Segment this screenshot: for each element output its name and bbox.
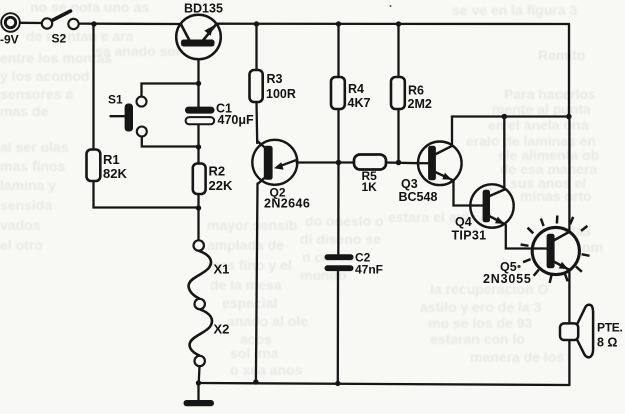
- resistor R4 4K7: [331, 77, 345, 109]
- svg-text:Remito: Remito: [538, 47, 585, 63]
- wire: top rail BD135 to right corner: [216, 23, 569, 26]
- resistor R5 1K: [354, 155, 386, 170]
- svg-text:en el anela ona: en el anela ona: [488, 117, 589, 133]
- svg-text:Q3: Q3: [401, 177, 418, 191]
- wire: emitter node down to C2: [337, 163, 340, 255]
- wire: X2 bottom to rail: [198, 366, 201, 383]
- svg-text:de montau e ara: de montau e ara: [26, 28, 134, 44]
- svg-text:22K: 22K: [209, 178, 233, 193]
- wire: Q5 emitter to speaker: [568, 270, 570, 324]
- transistor Q4 TIP31: [470, 184, 513, 227]
- svg-text:PTE.: PTE.: [597, 321, 622, 335]
- svg-text:do oneslo o: do oneslo o: [305, 213, 384, 229]
- node: R5 / R6 / Q3 base junction: [396, 160, 402, 166]
- svg-text:om: om: [582, 239, 603, 255]
- wire: R2 bottom to X1: [197, 194, 199, 240]
- node: rail/R6 junction: [396, 21, 401, 26]
- wire: R3 to Q2 top: [255, 102, 258, 143]
- svg-text:2N2646: 2N2646: [264, 196, 310, 210]
- wire: Q2 bottom to ground rail: [256, 184, 258, 383]
- svg-text:100R: 100R: [266, 87, 296, 101]
- wire: Q3 emitter to Q4 base: [454, 181, 471, 206]
- svg-text:mas finos: mas finos: [0, 158, 66, 174]
- svg-text:4K7: 4K7: [348, 96, 371, 110]
- capacitor C1 470uF: [185, 107, 215, 125]
- node: bottom rail Q2 junction: [253, 379, 258, 384]
- svg-text:mayor sensib: mayor sensib: [207, 217, 297, 233]
- wire: R5 to Q3 base: [386, 161, 418, 164]
- svg-text:anado al ole: anado al ole: [227, 313, 308, 329]
- svg-text:2N3055: 2N3055: [483, 272, 532, 286]
- wire: top rail S2 to BD135: [79, 22, 181, 25]
- transistor Q5 2N3055 with heatsink burst: [521, 216, 590, 283]
- svg-text:1K: 1K: [362, 180, 378, 194]
- svg-text:manera de los: manera de los: [470, 349, 564, 365]
- switch S2: [42, 11, 79, 29]
- transistor Q1 BD135: [176, 15, 221, 60]
- svg-text:di diseno se: di diseno se: [300, 231, 381, 247]
- node: Q4 collector rail junction: [502, 114, 508, 120]
- speck artifact above R6: [390, 5, 392, 7]
- svg-text:de la mesa: de la mesa: [210, 277, 282, 293]
- wire: right side drop from top rail: [568, 24, 570, 117]
- svg-text:al ser olas: al ser olas: [0, 139, 69, 155]
- node: Q2 emitter / R4 / C2 junction: [336, 160, 342, 166]
- wire: Q4 emitter to Q5 base: [506, 225, 533, 249]
- wire: R6 to base node: [397, 109, 399, 163]
- svg-text:sa anado sol: sa anado sol: [95, 43, 180, 59]
- svg-text:Q4: Q4: [455, 215, 472, 229]
- pushbutton S1: [125, 97, 147, 137]
- node: bottom rail X2 junction: [196, 380, 201, 385]
- wire: R1 bottom lead: [94, 181, 199, 208]
- svg-text:R1: R1: [103, 152, 120, 167]
- svg-text:mas de: mas de: [0, 103, 48, 119]
- svg-text:82K: 82K: [103, 166, 127, 181]
- resistor R6 2M2: [391, 77, 405, 109]
- svg-text:BD135: BD135: [184, 2, 223, 16]
- svg-text:lamina y: lamina y: [0, 177, 56, 193]
- svg-text:2M2: 2M2: [408, 97, 432, 111]
- node: R1/R2/X1 junction: [196, 205, 201, 210]
- svg-text:X1: X1: [214, 262, 230, 277]
- wire: C2 to ground rail: [337, 271, 340, 383]
- wire: mid collector rail: [452, 115, 569, 117]
- svg-text:-9V: -9V: [0, 32, 19, 46]
- svg-text:X2: X2: [214, 322, 230, 337]
- wire: top rail battery to S2: [20, 22, 42, 25]
- wire: ground stub: [197, 383, 199, 400]
- node: rail/R4 junction: [336, 21, 341, 26]
- svg-text:mo se los de 93: mo se los de 93: [428, 315, 532, 331]
- svg-text:R3: R3: [267, 72, 283, 86]
- svg-text:estaran con lo: estaran con lo: [430, 331, 525, 347]
- speck artifact near Q5: [517, 265, 520, 268]
- svg-text:el otro: el otro: [0, 237, 43, 253]
- wire: S1 top link: [142, 84, 199, 97]
- speaker PTE 8 ohm: [560, 305, 593, 358]
- svg-text:Para hacerlos: Para hacerlos: [504, 86, 596, 102]
- resistor R1 82K: [87, 150, 101, 182]
- node: Q5 collector rail junction: [566, 114, 572, 120]
- svg-text:se ve en la figura 3: se ve en la figura 3: [452, 2, 577, 18]
- svg-text:S1: S1: [108, 93, 123, 107]
- svg-text:R6: R6: [408, 84, 424, 98]
- wire: rail to R6: [397, 24, 399, 77]
- svg-text:sol ima: sol ima: [230, 345, 278, 361]
- wire: Q4 collector riser: [503, 117, 505, 190]
- svg-text:R4: R4: [348, 82, 364, 96]
- wire: Q2 emitter to R5: [297, 161, 354, 163]
- transistor Q2 2N2646: [252, 140, 297, 185]
- svg-text:S2: S2: [52, 31, 67, 45]
- node A: rail junction: [91, 21, 96, 26]
- node: C1 bottom / S1 junction: [196, 144, 201, 149]
- svg-text:sensores a: sensores a: [0, 86, 73, 102]
- svg-text:470μF: 470μF: [218, 113, 255, 127]
- wire: S1 actuator stub: [111, 115, 125, 117]
- svg-text:especial: especial: [222, 295, 277, 311]
- wire: bottom ground rail: [199, 383, 570, 385]
- wire: C1 bottom to R2: [197, 125, 199, 164]
- ground: [184, 400, 215, 406]
- svg-text:sensida: sensida: [0, 197, 52, 213]
- wire: rail to R3: [255, 24, 257, 70]
- svg-text:minas orto: minas orto: [520, 188, 592, 204]
- wire: S1 bottom link: [142, 137, 199, 147]
- wire: rail to R4: [337, 24, 339, 77]
- svg-text:47nF: 47nF: [355, 263, 383, 277]
- svg-text:y los acomod: y los acomod: [0, 68, 89, 84]
- transducer X1: [189, 240, 211, 309]
- battery terminal -9V: [1, 13, 20, 32]
- svg-text:8 Ω: 8 Ω: [597, 336, 617, 350]
- wire: R4 to emitter node: [337, 109, 339, 163]
- resistor R3 100R: [250, 70, 263, 102]
- svg-text:astilo y ero de la 3: astilo y ero de la 3: [420, 299, 542, 315]
- capacitor C2 47nF: [325, 254, 354, 271]
- node: bottom rail C2 junction: [335, 381, 340, 386]
- resistor R2 22K: [193, 164, 206, 195]
- transistor Q3 BC548: [418, 142, 462, 186]
- wire: Q3 collector riser: [451, 117, 453, 146]
- node: BD135 base / S1 / C1 junction: [196, 81, 201, 86]
- transducer X2: [190, 309, 212, 366]
- wire: left drop to R1: [92, 24, 94, 150]
- wire: Q5 collector riser: [568, 117, 570, 233]
- svg-text:o xea anos: o xea anos: [230, 362, 303, 378]
- svg-text:TIP31: TIP31: [452, 229, 487, 243]
- wire: speaker to bottom rail: [568, 340, 570, 386]
- node: rail/R3 junction: [254, 21, 259, 26]
- svg-text:R2: R2: [209, 164, 226, 179]
- svg-text:no se nota uno as: no se nota uno as: [30, 0, 149, 15]
- svg-text:amplada de: amplada de: [207, 237, 284, 253]
- wire: BD135 base down to node: [197, 59, 199, 106]
- svg-text:BC548: BC548: [399, 190, 438, 204]
- svg-text:mente al punta: mente al punta: [492, 101, 591, 117]
- svg-text:vados: vados: [0, 217, 41, 233]
